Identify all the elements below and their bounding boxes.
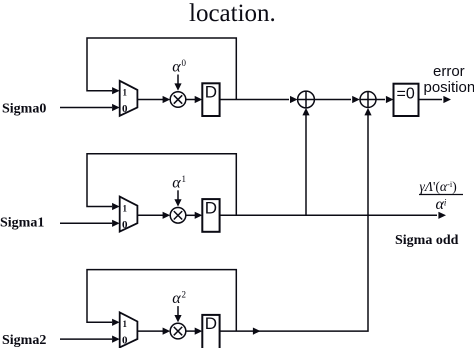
- svg-text:Sigma0: Sigma0: [2, 102, 46, 117]
- svg-text:D: D: [205, 314, 217, 333]
- svg-text:0: 0: [122, 103, 128, 115]
- svg-text:D: D: [205, 198, 217, 217]
- svg-text:D: D: [205, 83, 217, 102]
- svg-text:1: 1: [123, 319, 128, 329]
- svg-text:error: error: [433, 63, 465, 80]
- svg-text:0: 0: [182, 58, 187, 68]
- svg-text:Sigma odd: Sigma odd: [395, 233, 459, 248]
- svg-text:Sigma1: Sigma1: [0, 216, 44, 231]
- svg-text:0: 0: [122, 219, 128, 231]
- svg-text:2: 2: [182, 290, 187, 300]
- svg-text:1: 1: [123, 203, 128, 213]
- svg-text:1: 1: [182, 174, 187, 184]
- svg-text:α: α: [172, 59, 181, 76]
- svg-text:Sigma2: Sigma2: [2, 333, 46, 348]
- svg-text:1: 1: [123, 88, 128, 98]
- svg-text:γΛ'(α-i): γΛ'(α-i): [420, 179, 457, 194]
- svg-text:position: position: [424, 79, 474, 96]
- svg-text:αi: αi: [436, 196, 447, 213]
- svg-text:α: α: [172, 290, 181, 307]
- svg-text:=0: =0: [397, 85, 415, 102]
- svg-text:α: α: [172, 174, 181, 191]
- svg-text:location.: location.: [189, 0, 276, 27]
- svg-text:0: 0: [122, 335, 128, 347]
